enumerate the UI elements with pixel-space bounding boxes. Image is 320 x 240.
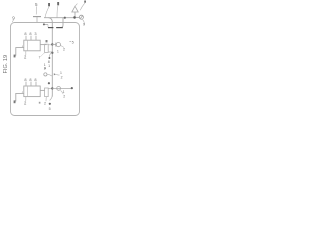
svg-text:2: 2 [63, 95, 65, 99]
svg-text:9: 9 [83, 23, 85, 27]
svg-text:2: 2 [44, 67, 46, 71]
svg-text:2: 2 [24, 55, 27, 60]
svg-text:1: 1 [60, 71, 62, 75]
svg-text:8: 8 [34, 77, 36, 82]
svg-text:9: 9 [12, 16, 15, 21]
svg-text:1: 1 [57, 50, 59, 54]
svg-text:2: 2 [61, 76, 63, 80]
svg-text:1: 1 [48, 64, 50, 68]
svg-text:3: 3 [34, 31, 36, 36]
svg-text:2: 2 [24, 101, 27, 106]
svg-text:2: 2 [44, 102, 46, 106]
svg-text:7: 7 [39, 56, 41, 60]
svg-text:8: 8 [24, 77, 26, 82]
svg-text:8: 8 [29, 31, 31, 36]
svg-text:5: 5 [49, 107, 51, 111]
svg-text:1: 1 [63, 90, 65, 94]
svg-text:8: 8 [24, 31, 26, 36]
svg-text:8: 8 [29, 77, 31, 82]
svg-text:5: 5 [35, 2, 38, 7]
svg-text:5: 5 [72, 40, 74, 44]
svg-text:FIG. 19: FIG. 19 [3, 55, 9, 74]
svg-text:2: 2 [63, 48, 65, 52]
